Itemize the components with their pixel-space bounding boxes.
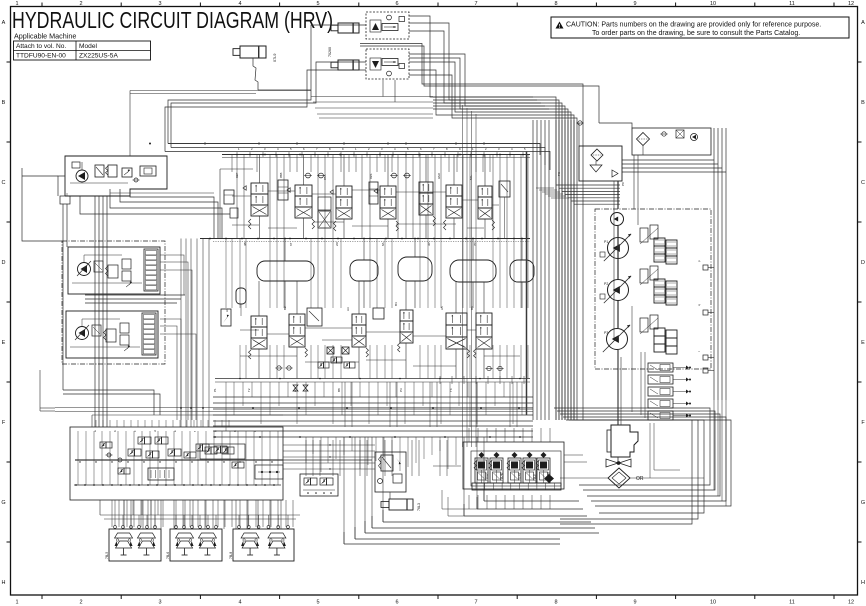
wire P2 discharge — [171, 148, 545, 166]
solenoid valve SV3 — [648, 387, 673, 396]
pilot solenoid row 2 — [128, 449, 135, 456]
pilot manifold right portion — [200, 444, 245, 459]
wire pair mid — [360, 44, 583, 421]
svg-text:A: A — [861, 20, 865, 26]
svg-text:ZX225US-5A: ZX225US-5A — [79, 53, 118, 60]
pilot-to-pedal verticals — [123, 500, 125, 529]
OR diamond valve — [608, 468, 630, 488]
manifold left edge — [219, 169, 221, 239]
narrow box left of swing — [369, 182, 378, 204]
pedal symbol — [115, 533, 133, 538]
valve stack column F — [142, 313, 156, 355]
wire boom to bus — [258, 89, 311, 91]
pilot pump — [611, 213, 624, 226]
wire loop — [554, 408, 710, 485]
svg-text:76L4B: 76L4B — [518, 473, 522, 481]
cylinder travel-1 — [338, 23, 359, 33]
solenoid block bottom — [300, 474, 338, 496]
wire subcircuit — [599, 123, 632, 128]
svg-text:H: H — [861, 580, 865, 586]
manifold horizontal branches — [232, 195, 251, 197]
svg-text:A: A — [2, 20, 6, 26]
solenoid stack drains — [649, 423, 651, 478]
svg-text:T2: T2 — [247, 388, 251, 392]
regulator 2 — [640, 269, 648, 283]
cylinder travel-2 — [338, 60, 359, 70]
machine table — [14, 41, 151, 60]
svg-text:6: 6 — [395, 600, 398, 606]
svg-text:1: 1 — [15, 600, 18, 606]
svg-text:8: 8 — [554, 1, 557, 7]
pilot manifold inner top edge — [92, 414, 283, 416]
valve E1 — [94, 261, 103, 272]
valve column bucket — [336, 186, 352, 197]
valve column extra row1 — [419, 182, 433, 193]
wire — [372, 527, 595, 529]
wire loop — [569, 420, 704, 513]
bundle bend cluster — [536, 187, 554, 189]
manifold row2 bus — [215, 378, 530, 380]
narrow box left of arm1 — [278, 180, 288, 200]
pilot area verticals to pedal — [111, 500, 113, 527]
bundle risers — [344, 382, 346, 427]
wire — [213, 402, 533, 404]
relief E — [126, 282, 132, 287]
check valve top line — [578, 121, 582, 125]
regulator drain verticals — [631, 306, 633, 412]
svg-text:P65LR: P65LR — [485, 472, 489, 481]
wire loop — [563, 417, 726, 501]
wire — [63, 394, 160, 415]
extra dots — [264, 154, 266, 156]
fan shaft — [617, 457, 619, 461]
solenoid valve SV5 — [648, 411, 673, 420]
pump symbol in box D — [76, 170, 88, 182]
svg-text:B2: B2 — [283, 306, 287, 310]
wire — [409, 23, 559, 420]
lever valve assembly — [375, 452, 406, 492]
svg-text:G: G — [861, 500, 865, 506]
svg-text:Applicable Machine: Applicable Machine — [14, 32, 76, 41]
small valve cluster row2 — [318, 362, 324, 368]
bank top wires — [468, 428, 470, 442]
valve column row2 c — [352, 314, 366, 325]
svg-text:7: 7 — [474, 600, 477, 606]
top bundle left extension — [311, 96, 433, 98]
svg-text:02P: 02P — [235, 173, 239, 178]
svg-text:03S: 03S — [369, 174, 373, 179]
cooler symbol — [676, 130, 684, 138]
main pump 3 — [607, 329, 628, 350]
pump shaft line — [617, 226, 619, 279]
wire — [409, 31, 562, 420]
valve column arm1 — [295, 185, 312, 196]
svg-text:6: 6 — [395, 1, 398, 7]
manifold dotted boundary — [222, 157, 530, 159]
svg-text:3: 3 — [158, 600, 161, 606]
pilot supply thick line — [75, 459, 283, 461]
outer dash-dot box around E and F — [62, 241, 165, 364]
pilot box interior verticals — [77, 431, 79, 485]
svg-text:8: 8 — [554, 600, 557, 606]
wire lever valve — [389, 492, 391, 499]
svg-text:9: 9 — [633, 600, 636, 606]
svg-text:3P: 3P — [427, 242, 431, 246]
svg-text:E: E — [2, 340, 6, 346]
relief small left of row1 — [230, 208, 238, 218]
gallery rounded rect 1 — [257, 261, 314, 281]
wires box D to manifold — [66, 193, 68, 196]
accumulator unit P65LR — [479, 452, 485, 458]
svg-text:8A: 8A — [381, 242, 385, 246]
svg-text:07L9: 07L9 — [273, 54, 277, 62]
svg-text:A3: A3 — [346, 307, 350, 311]
check in subcircuit — [662, 132, 666, 136]
zone tick marks left/right — [7, 61, 11, 63]
solenoid valve SV4 — [648, 399, 673, 408]
small cylinder 76L3 — [389, 499, 413, 510]
valve column row2 g — [476, 313, 492, 325]
svg-text:76L6: 76L6 — [166, 552, 170, 559]
horizontal links pilot-to-accumulator — [283, 444, 375, 446]
valve column row2 e — [400, 310, 413, 321]
pump group box F — [66, 311, 158, 358]
regulator 3 — [640, 318, 648, 332]
manifold stub verticals — [231, 155, 233, 173]
wire — [213, 396, 533, 398]
check pair below g — [487, 366, 491, 370]
check hourglass pair 1 — [293, 385, 298, 391]
wire — [213, 436, 533, 438]
wire — [55, 411, 533, 413]
extra left wires — [40, 407, 55, 409]
svg-text:E: E — [861, 340, 865, 346]
regulator 1 — [640, 228, 648, 242]
wire D down — [62, 204, 64, 390]
small valve row2 d — [373, 308, 384, 319]
zone tick marks top/bottom — [41, 3, 43, 7]
gallery rounded rect 5 — [510, 260, 534, 282]
svg-text:12: 12 — [848, 1, 854, 7]
small block below D — [60, 196, 70, 204]
gallery rounded rect 2 — [350, 260, 378, 281]
svg-text:B4: B4 — [394, 302, 398, 306]
fan propeller — [606, 459, 631, 467]
svg-text:76L5: 76L5 — [105, 552, 109, 559]
wire — [409, 70, 574, 420]
wire box D out left — [58, 176, 65, 196]
bypass filter diamond — [637, 133, 650, 146]
svg-text:D: D — [861, 260, 865, 266]
wires in box F — [70, 346, 140, 348]
wire — [165, 70, 366, 152]
svg-text:5: 5 — [316, 600, 319, 606]
solenoid X square 2 — [342, 347, 349, 354]
wire pilot line — [165, 152, 550, 171]
long risers center — [305, 440, 307, 476]
svg-text:P3: P3 — [604, 331, 608, 335]
svg-text:Attach to vol. No.: Attach to vol. No. — [16, 43, 66, 50]
svg-text:2: 2 — [79, 600, 82, 606]
wire — [383, 521, 591, 523]
svg-text:B: B — [2, 100, 6, 106]
engine inner — [607, 430, 611, 452]
wire — [171, 62, 366, 148]
wire — [213, 414, 533, 416]
gallery rounded rect 3 — [398, 257, 432, 281]
svg-text:P3: P3 — [399, 388, 403, 392]
svg-text:10: 10 — [710, 600, 716, 606]
svg-text:10: 10 — [710, 1, 716, 7]
svg-text:P8L4B: P8L4B — [500, 472, 504, 481]
upper filter subcircuit box — [632, 128, 711, 155]
wire — [355, 538, 560, 540]
wire — [63, 390, 154, 415]
bundle to pump group lines — [556, 184, 620, 186]
svg-text:A1: A1 — [225, 308, 229, 312]
svg-text:P0: P0 — [621, 182, 625, 186]
svg-text:CAUTION: Parts numbers on the: CAUTION: Parts numbers on the drawing ar… — [566, 22, 821, 29]
travel valve box 1 (dashed) — [366, 12, 409, 39]
valve column boom1 — [251, 183, 268, 194]
wire in box D — [70, 182, 128, 184]
hydraulic tank box — [579, 146, 622, 181]
valve F3 — [120, 323, 129, 333]
regulator cells 1 — [654, 238, 665, 246]
small pilot valve — [499, 181, 510, 197]
wire — [409, 54, 565, 420]
relief F — [124, 346, 130, 351]
extra top-left long horizontals — [130, 90, 311, 92]
long feed verticals right of manifold — [462, 105, 464, 447]
valve column row2 a — [251, 316, 267, 327]
engine block — [611, 425, 638, 457]
check valve D — [134, 178, 138, 182]
bank diamond — [544, 474, 554, 483]
dots on links — [329, 444, 330, 445]
gallery connectors — [284, 239, 286, 262]
pedal symbol — [176, 533, 194, 538]
wire — [409, 58, 568, 420]
svg-text:P2: P2 — [604, 282, 608, 286]
pilot control box 76L5 — [109, 529, 161, 561]
check pair below a — [277, 366, 281, 370]
svg-text:T4: T4 — [449, 388, 453, 392]
accumulator unit P8L4B — [494, 452, 500, 458]
svg-text:9: 9 — [633, 1, 636, 7]
bottom bundle risers — [483, 437, 485, 501]
svg-text:C: C — [2, 180, 6, 186]
pump circle E — [78, 263, 91, 276]
wire — [477, 508, 583, 510]
small pilot valve row2 — [307, 308, 322, 326]
pedal wires up — [114, 500, 116, 515]
svg-text:B: B — [861, 100, 865, 106]
wire loop — [557, 411, 715, 490]
valve D2 — [108, 165, 117, 177]
svg-text:A7: A7 — [293, 388, 297, 392]
svg-text:A5: A5 — [440, 306, 444, 310]
right bundle extension down — [713, 400, 715, 490]
bank lower links — [448, 497, 464, 516]
row2 verticals — [225, 239, 227, 309]
wire — [344, 543, 560, 545]
wires right of EF stack — [160, 255, 184, 295]
accumulator unit P8L8 — [527, 452, 533, 458]
svg-text:9AR: 9AR — [437, 172, 441, 179]
left mid horizontals — [110, 192, 214, 194]
accumulator unit 76L4B — [512, 452, 518, 458]
check circles row1 b — [392, 173, 397, 178]
wire P1 discharge — [168, 144, 540, 156]
svg-text:05B: 05B — [279, 173, 283, 178]
travel valve box 2 (dashed) — [366, 49, 409, 79]
solenoid valve SV1 — [648, 363, 673, 372]
svg-text:D: D — [2, 260, 6, 266]
manifold top bus — [222, 154, 530, 156]
svg-text:7: 7 — [474, 1, 477, 7]
wire — [365, 532, 599, 534]
valve column row2 b — [289, 314, 305, 325]
wire — [409, 75, 577, 420]
strainer — [590, 165, 602, 172]
svg-text:To order parts on the drawing,: To order parts on the drawing, be sure t… — [592, 30, 800, 37]
svg-text:Model: Model — [79, 43, 97, 50]
OR valve line — [560, 477, 608, 479]
wire — [213, 420, 533, 422]
pedal box ports — [114, 526, 117, 529]
solenoid X square 1 — [327, 347, 334, 354]
accumulator bank box — [463, 442, 564, 489]
engine feed lines — [617, 350, 619, 425]
pilot filter group box — [65, 156, 167, 196]
pilot solenoid row 3 — [196, 444, 203, 451]
far right connectors — [703, 265, 708, 270]
svg-text:07A: 07A — [323, 175, 327, 180]
caution warning triangle — [556, 22, 564, 29]
return filter — [591, 149, 603, 161]
main pump 2 — [608, 280, 629, 301]
regulator cells 3 — [654, 328, 665, 336]
gallery rounded rect 4 — [450, 260, 496, 282]
wire top assembly left drop — [168, 25, 366, 144]
pump pilot squares — [600, 252, 605, 257]
junction dots row — [149, 143, 151, 145]
row2 to bundle verticals — [225, 382, 227, 431]
pedal symbol — [241, 533, 259, 538]
svg-text:5TL: 5TL — [469, 174, 473, 180]
wire — [409, 16, 556, 420]
wire — [484, 500, 579, 502]
box2 bottom pins — [382, 80, 384, 97]
accumulator bank inner box — [471, 451, 561, 486]
pilot extra solenoids — [100, 442, 106, 448]
pedal symbol — [198, 533, 216, 538]
pilot port row — [75, 484, 77, 486]
valve stack column E — [144, 249, 158, 291]
valve column row2 f — [446, 313, 467, 325]
svg-text:4: 4 — [238, 600, 241, 606]
valve D1 — [95, 165, 104, 177]
pilot manifold box — [70, 427, 283, 500]
wires between E and F — [85, 294, 185, 296]
valve E2 — [108, 265, 118, 278]
svg-text:OR: OR — [636, 476, 644, 482]
bank right wires — [564, 454, 583, 456]
svg-text:11: 11 — [789, 600, 795, 606]
main pump 1 — [608, 238, 629, 259]
svg-text:HYDRAULIC CIRCUIT DIAGRAM (HRV: HYDRAULIC CIRCUIT DIAGRAM (HRV) — [12, 7, 333, 33]
solenoid valve SV2 — [648, 375, 673, 384]
valve U1 internals — [372, 23, 379, 30]
pedal left wires — [99, 500, 101, 515]
pilot port row top — [95, 420, 97, 427]
valve U2 internals — [372, 61, 379, 68]
pedal bus horizontal — [100, 514, 300, 516]
wires in box E — [72, 282, 142, 284]
accumulator bottom stubs — [468, 495, 470, 509]
suction line — [617, 181, 619, 209]
top bus port ticks — [236, 152, 238, 157]
valve F2 — [106, 329, 116, 342]
valve column aux — [446, 185, 462, 196]
small X box row1 — [318, 211, 331, 228]
right vertical bundle far — [713, 128, 715, 400]
svg-text:TK: TK — [557, 172, 561, 176]
pump circle F — [76, 327, 89, 340]
filter group small blocks — [140, 166, 156, 176]
pilot control box 76L6 — [170, 529, 222, 561]
wire — [55, 407, 533, 409]
svg-text:76L3: 76L3 — [417, 503, 421, 511]
pilot check valves — [107, 453, 111, 457]
wire loop — [560, 420, 692, 524]
svg-text:P1: P1 — [604, 240, 608, 244]
svg-text:6T: 6T — [289, 242, 293, 246]
small pump circle subcircuit — [691, 134, 698, 141]
mega vertical bundle — [532, 120, 534, 420]
pilot box interior dots — [79, 461, 80, 462]
valve column swing — [380, 186, 396, 197]
row2-lower verticals — [239, 345, 241, 379]
wire D down2 — [66, 204, 68, 247]
wire from boom cylinder down — [253, 58, 258, 90]
bundle top horizontals — [433, 96, 533, 98]
pilot control box 76L8 — [233, 529, 294, 561]
svg-text:TTDFU90-EN-00: TTDFU90-EN-00 — [16, 53, 66, 60]
pedal symbol — [268, 533, 286, 538]
pump group dash-dot box — [595, 209, 711, 369]
pedal box ports — [238, 526, 241, 529]
svg-text:C: C — [861, 180, 865, 186]
left vertical bundle — [94, 196, 96, 427]
svg-text:76L8: 76L8 — [229, 552, 233, 559]
pedal box ports — [175, 526, 178, 529]
wire — [464, 515, 587, 517]
svg-text:4B: 4B — [243, 242, 247, 246]
svg-text:B6: B6 — [470, 306, 474, 310]
accumulator row2 — [236, 288, 246, 304]
wire — [213, 425, 533, 427]
wire — [213, 408, 533, 410]
wire left down from D area — [22, 168, 62, 241]
pilot block small — [148, 468, 174, 480]
check circles row1 a — [306, 173, 311, 178]
regulator cells 2 — [654, 279, 665, 287]
svg-text:B8: B8 — [337, 388, 341, 392]
wire — [213, 430, 533, 432]
accumulator unit DCL4B — [541, 452, 547, 458]
